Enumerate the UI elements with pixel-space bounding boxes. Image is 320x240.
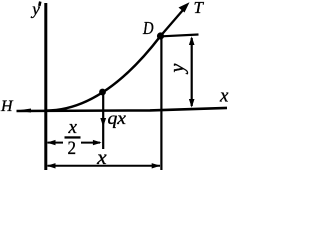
H arrowhead bbox=[16, 109, 31, 113]
svg-text:T: T bbox=[194, 0, 205, 17]
bottom x dimension line bbox=[48, 165, 161, 167]
tick mark near y label bbox=[38, 1, 41, 6]
x/2 dimension line right segment bbox=[81, 142, 100, 144]
fraction bar bbox=[65, 136, 81, 138]
svg-text:D: D bbox=[142, 18, 154, 38]
bottom right arrowhead bbox=[152, 163, 161, 168]
x/2 right arrowhead bbox=[93, 140, 102, 145]
x-axis bbox=[17, 108, 228, 111]
qx arrowhead bbox=[100, 118, 106, 127]
vertical extension line below D bbox=[160, 36, 162, 170]
svg-text:qx: qx bbox=[108, 108, 127, 128]
extension line below load point bbox=[102, 92, 104, 149]
svg-text:x: x bbox=[96, 148, 107, 169]
tangent line at D bbox=[161, 7, 187, 37]
x/2 left arrowhead bbox=[47, 140, 56, 145]
cable curve (parabola) bbox=[46, 36, 161, 111]
point D dot bbox=[157, 32, 164, 39]
horizontal cap line from D bbox=[162, 35, 199, 37]
load point dot on curve bbox=[99, 89, 106, 96]
svg-text:x: x bbox=[219, 86, 229, 107]
svg-text:y: y bbox=[167, 63, 189, 74]
y-axis bbox=[44, 3, 47, 170]
tangent arrowhead bbox=[179, 2, 190, 12]
y dimension top arrowhead bbox=[189, 36, 195, 45]
svg-text:2: 2 bbox=[68, 139, 77, 159]
svg-text:H: H bbox=[0, 98, 14, 115]
svg-text:x: x bbox=[68, 117, 78, 138]
y dimension bottom arrowhead bbox=[189, 99, 195, 108]
x/2 dimension line left segment bbox=[48, 142, 64, 144]
bottom left arrowhead bbox=[47, 163, 56, 168]
y dimension line bbox=[191, 38, 193, 106]
